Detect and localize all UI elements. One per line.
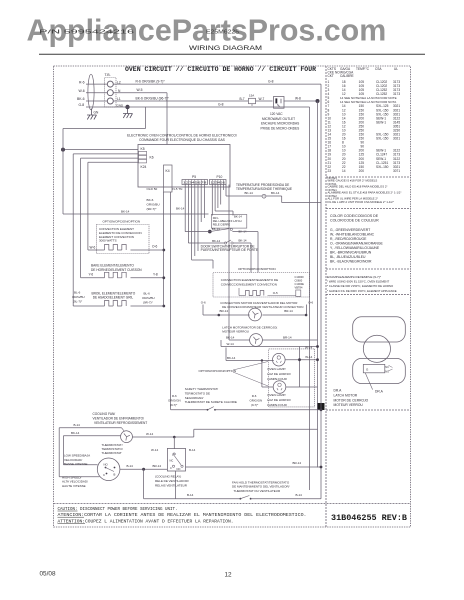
wire relay bottom <box>175 471 177 499</box>
svg-text:W-5: W-5 <box>137 88 143 92</box>
svg-text:BL, -BLUE/AZUL/BLEU: BL, -BLUE/AZUL/BLEU <box>330 255 366 259</box>
svg-text:G-8: G-8 <box>268 80 274 84</box>
svg-text:BK-6 OR/G/BU (96-7)*: BK-6 OR/G/BU (96-7)* <box>136 97 170 101</box>
fan hold thermostat label <box>232 480 290 493</box>
door switch upper feed <box>184 185 186 232</box>
svg-text:BK-14: BK-14 <box>245 191 254 195</box>
svg-text:THERMOSTAT: THERMOSTAT <box>102 451 122 455</box>
svg-text:BR-14: BR-14 <box>284 309 293 313</box>
svg-text:BR-14: BR-14 <box>283 336 292 340</box>
svg-text:K24: K24 <box>141 165 147 169</box>
svg-text:COMMANDE FOUR ELECTRONIQUE DU: COMMANDE FOUR ELECTRONIQUE DU CHASSIS GA… <box>139 138 226 142</box>
wire N down to EOC <box>113 92 167 94</box>
svg-text:W-14: W-14 <box>151 448 158 452</box>
header rule <box>39 53 425 55</box>
svg-text:VBT84: VBT84 <box>295 285 303 289</box>
resistor convection element <box>105 245 127 251</box>
wire lamp2 <box>261 361 263 388</box>
wire BK-14 to door switch <box>63 213 209 215</box>
motor convection fan <box>249 308 262 321</box>
svg-text:MOTOR DE CERROJO: MOTOR DE CERROJO <box>334 398 369 402</box>
bus K4 right down <box>170 192 172 410</box>
microwave outlet <box>274 97 285 109</box>
wire convection motor <box>202 305 204 316</box>
svg-text:T.B.: T.B. <box>105 73 111 77</box>
svg-text:EXAMPLE/EJEMPLO/EXEMPLE (9-7)*: EXAMPLE/EJEMPLO/EXEMPLE (9-7)* <box>327 275 382 279</box>
svg-text:R-6: R-6 <box>252 394 257 398</box>
wire label BL-6 right <box>142 292 155 305</box>
temperature probe circuit <box>226 191 321 202</box>
ground symbol at GND junction <box>123 107 133 118</box>
node lamp1 bus <box>316 358 319 361</box>
bus green x309 <box>309 107 311 490</box>
wire outlet to bus B <box>284 100 318 102</box>
microwave outlet label <box>261 112 300 130</box>
wire bake element <box>81 277 105 279</box>
svg-text:BK-14: BK-14 <box>71 431 80 435</box>
color code block <box>330 214 383 264</box>
svg-text:DR.A: DR.A <box>334 388 343 392</box>
thermostat fan hold switch <box>240 498 242 500</box>
svg-text:ENCHUFE MICROONDAS: ENCHUFE MICROONDAS <box>261 122 299 126</box>
left bus verticals <box>63 129 88 307</box>
node relay bus <box>320 466 323 469</box>
table/notes divider <box>326 176 411 178</box>
wire GND to right bus <box>98 106 310 108</box>
cord lead labels <box>77 80 85 107</box>
svg-text:GN: GN <box>94 111 99 115</box>
svg-text:TEMP.°C: TEMP.°C <box>356 67 370 71</box>
svg-text:OPTION/OPCION/OPTION: OPTION/OPCION/OPTION <box>103 220 141 224</box>
wire junction down to fan hold <box>143 469 145 499</box>
terminal N <box>107 90 113 96</box>
safety thermostat label <box>185 387 237 404</box>
terminal L1 <box>107 98 113 104</box>
svg-text:VENTILATEUR REFROIDISSEMENT: VENTILATEUR REFROIDISSEMENT <box>94 421 147 425</box>
temperature probe label <box>236 183 292 191</box>
svg-text:CALIBRE: CALIBRE <box>340 74 354 78</box>
wire BK-14 to fan <box>63 435 120 437</box>
svg-text:UL: UL <box>394 67 398 71</box>
svg-text:SXL-150: SXL-150 <box>376 137 389 141</box>
svg-text:OPTION/OPCION/OPTION: OPTION/OPCION/OPTION <box>199 369 237 373</box>
latch motor detail label DR.A <box>334 388 369 407</box>
svg-text:MICROWAVE OUTLET: MICROWAVE OUTLET <box>262 117 295 121</box>
node left bus junction <box>61 148 65 152</box>
node convection motor left <box>218 314 221 317</box>
svg-text:N-5 TN: N-5 TN <box>173 187 183 191</box>
svg-text:DE ASADO/ELEMENT GRIL: DE ASADO/ELEMENT GRIL <box>93 296 134 300</box>
svg-text:BK-14: BK-14 <box>227 356 236 360</box>
cord leads <box>86 84 107 107</box>
svg-text:W-8: W-8 <box>295 97 301 101</box>
svg-text:05/08: 05/08 <box>40 571 56 578</box>
svg-text:200: 200 <box>359 169 365 173</box>
wire gauge table rows <box>328 80 401 173</box>
svg-text:CONVECCION/ELEMENT CONVECTION: CONVECCION/ELEMENT CONVECTION <box>221 283 277 287</box>
svg-text:Y-6: Y-6 <box>89 273 94 277</box>
caution strip divider <box>54 503 411 505</box>
node W-14 bus <box>316 345 319 348</box>
wire fuse to outlet <box>256 100 273 102</box>
relay K6 <box>139 155 147 159</box>
registration mark <box>317 403 325 410</box>
thermal fuse convection 2 <box>296 290 301 296</box>
svg-text:LATCH MOTOR: LATCH MOTOR <box>334 393 358 397</box>
relay K24 <box>139 159 147 163</box>
latch motor detail upper housing <box>353 317 406 342</box>
svg-text:BK-14: BK-14 <box>234 214 242 218</box>
svg-text:THERMOSTAT DE SURETE CALORIE: THERMOSTAT DE SURETE CALORIE <box>185 400 237 404</box>
svg-text:OLD 50: OLD 50 <box>147 187 158 191</box>
svg-text:O-6: O-6 <box>308 301 313 305</box>
svg-text:CKT: CKT <box>328 74 334 78</box>
node safety thermostat bus <box>320 408 323 411</box>
wire B-14 to fan <box>59 427 121 429</box>
svg-text:B-14: B-14 <box>189 448 196 452</box>
svg-text:31B046255 REV:B: 31B046255 REV:B <box>331 513 407 523</box>
node thermostat relay junction <box>142 468 145 471</box>
svg-text:VENTILADOR DE ENFRIAMIENTO/: VENTILADOR DE ENFRIAMIENTO/ <box>93 416 145 420</box>
diagram outer frame <box>54 66 411 527</box>
high speed label <box>62 475 88 487</box>
latch-detail bottom divider <box>326 409 411 411</box>
svg-text:O-6: O-6 <box>201 301 206 305</box>
svg-text:RELE CIERRE: RELE CIERRE <box>213 222 231 226</box>
svg-text:W-7: W-7 <box>259 97 265 101</box>
svg-text:G-8: G-8 <box>218 102 224 106</box>
relay K2 cooling box <box>167 448 185 471</box>
svg-text:* GAINE D FIL DE 600V 150°C, E: * GAINE D FIL DE 600V 150°C, ELEMENT APP… <box>327 289 397 293</box>
svg-text:THERMOSTAT DU VENTILATEUR: THERMOSTAT DU VENTILATEUR <box>234 489 281 493</box>
EOC left wires <box>63 150 138 163</box>
svg-text:R, -RED/ROJO/ROUGE: R, -RED/ROJO/ROUGE <box>330 237 367 241</box>
svg-text:C: C <box>103 473 105 477</box>
svg-text:G-8: G-8 <box>79 103 85 107</box>
svg-text:Y-8: Y-8 <box>153 272 158 276</box>
svg-text:ELECTRONIC OVEN CONTROL/CONTRO: ELECTRONIC OVEN CONTROL/CONTROL DE HORNO… <box>127 133 237 137</box>
node broil feed <box>162 305 165 308</box>
svg-text:BK-14: BK-14 <box>212 239 220 243</box>
thermostat cooling switch circle <box>97 458 120 481</box>
svg-text:COLOR/CODE DE COULEUR: COLOR/CODE DE COULEUR <box>330 219 379 223</box>
svg-text:BR-14: BR-14 <box>220 309 229 313</box>
svg-text:W-14: W-14 <box>305 345 312 349</box>
svg-text:C1000E: C1000E <box>295 282 305 286</box>
convection 2 part numbers <box>295 275 305 289</box>
svg-text:W-14: W-14 <box>227 342 234 346</box>
svg-text:OVEN CIRCUIT // CIRCUITO DE HO: OVEN CIRCUIT // CIRCUITO DE HORNO // CIR… <box>125 66 316 73</box>
svg-text:L2: L2 <box>117 80 121 84</box>
color-code/example divider <box>326 268 411 270</box>
notes block <box>328 176 402 204</box>
wire fan hold row <box>144 498 241 500</box>
example/latch-detail divider <box>326 294 411 296</box>
svg-text:120 VAC: 120 VAC <box>270 112 283 116</box>
svg-text:(9R-7)*: (9R-7)* <box>147 207 158 211</box>
wire relay to bus <box>186 466 322 468</box>
wire tap to relay coil <box>173 437 175 449</box>
example block <box>327 275 397 293</box>
wire lamp1 right <box>285 359 317 361</box>
svg-text:B-14: B-14 <box>127 464 134 468</box>
svg-text:OR/G/BU: OR/G/BU <box>147 203 160 207</box>
svg-text:Y, -YELLOW/AMARILLO/JAUNE: Y, -YELLOW/AMARILLO/JAUNE <box>330 246 380 250</box>
svg-text:BK-14: BK-14 <box>176 207 185 211</box>
svg-text:SEGURIDAD/: SEGURIDAD/ <box>185 396 204 400</box>
right column divider <box>325 66 327 527</box>
wire broil element <box>73 305 104 307</box>
convection motor label <box>220 301 303 309</box>
svg-text:B-14: B-14 <box>74 423 81 427</box>
terminal labels L2 N L1 GND <box>117 80 125 107</box>
svg-text:OPTION/OPCION/OPTION: OPTION/OPCION/OPTION <box>238 267 276 271</box>
svg-text:FIL DE L APP-2 UNIT POUR CSA M: FIL DE L APP-2 UNIT POUR CSA MODELE 2° 1… <box>328 200 394 204</box>
svg-text:G, -GREEN/VERDE/VERT: G, -GREEN/VERDE/VERT <box>330 228 370 232</box>
caution text <box>58 506 307 524</box>
svg-text:3071: 3071 <box>393 169 400 173</box>
latch motor detail cam circle <box>363 335 390 362</box>
latch motor detail leader line <box>365 373 372 390</box>
svg-text:BK-6: BK-6 <box>147 198 154 202</box>
thermostat safety switch <box>171 409 208 411</box>
svg-text:COOLING FAN/: COOLING FAN/ <box>93 412 116 416</box>
wire latch motor <box>229 339 250 341</box>
svg-text:15A: 15A <box>249 94 254 98</box>
node convection feed <box>162 249 165 252</box>
svg-text:K5: K5 <box>141 147 145 151</box>
resistor bake element <box>105 272 127 278</box>
node bake bus <box>162 276 165 279</box>
cooling thermostat label <box>102 443 123 455</box>
TB sub-box wire <box>63 107 146 129</box>
svg-text:PRISE DE MICRO-ONDES: PRISE DE MICRO-ONDES <box>261 126 300 130</box>
terminal L2 <box>107 81 113 87</box>
svg-text:BR, -BROWN/CAFE/BRUN: BR, -BROWN/CAFE/BRUN <box>330 251 372 255</box>
svg-text:BK-14: BK-14 <box>121 210 130 214</box>
svg-text:3000 WATTS: 3000 WATTS <box>99 239 117 243</box>
svg-text:LAMPE FOUR: LAMPE FOUR <box>267 403 287 407</box>
svg-text:OR/G/GN: OR/G/GN <box>250 398 263 402</box>
node GND junction <box>125 105 129 109</box>
svg-text:MOTEUR VERROU: MOTEUR VERROU <box>222 330 249 334</box>
svg-text:W-14: W-14 <box>146 432 153 436</box>
svg-text:W-6: W-6 <box>90 245 96 249</box>
power cord ellipse <box>88 74 94 110</box>
svg-text:BK-14: BK-14 <box>271 191 280 195</box>
wire label BK-6 OR/G/BU (9R-7) <box>147 198 160 211</box>
svg-text:B-14: B-14 <box>187 493 194 497</box>
svg-text:(9R-7)*: (9R-7)* <box>143 301 154 305</box>
svg-text:R-6 OR/G/BK (9-7)*: R-6 OR/G/BK (9-7)* <box>136 80 166 84</box>
svg-text:PUERTA/INTERRUPTEUR DE PORTE: PUERTA/INTERRUPTEUR DE PORTE <box>201 248 259 252</box>
relay K4 <box>164 165 173 192</box>
svg-text:P10: P10 <box>217 175 223 179</box>
svg-text:OR/G/BU: OR/G/BU <box>72 295 85 299</box>
node fan relay tap <box>173 436 176 439</box>
resistor convection element 2 <box>246 291 264 296</box>
svg-text:NC: NC <box>170 459 174 463</box>
wire label R-6 right <box>250 394 263 407</box>
svg-text:R-6: R-6 <box>79 80 85 84</box>
pin wire bundle <box>192 185 233 341</box>
svg-text:P5: P5 <box>192 175 196 179</box>
node lamp1 mid <box>298 358 301 361</box>
svg-text:(9-7)*: (9-7)* <box>251 403 259 407</box>
svg-text:LAMPE FOUR: LAMPE FOUR <box>267 377 287 381</box>
broil element label <box>92 291 136 299</box>
svg-text:L1: L1 <box>117 97 121 101</box>
svg-text:DR.A: DR.A <box>375 389 384 393</box>
svg-text:R-6: R-6 <box>172 394 177 398</box>
svg-text:O-5: O-5 <box>273 291 278 295</box>
svg-text:BR-14: BR-14 <box>293 461 302 465</box>
svg-text:W-6: W-6 <box>79 89 85 93</box>
option box oven lamps <box>269 349 315 407</box>
svg-text:BAKE ELEMENT/ELEMENTO: BAKE ELEMENT/ELEMENTO <box>91 263 134 267</box>
door switch label <box>201 244 259 252</box>
svg-text:O-6: O-6 <box>152 245 158 249</box>
svg-text:RELAIS VENTILATEUR: RELAIS VENTILATEUR <box>155 483 188 487</box>
svg-text:C: C <box>170 466 172 470</box>
svg-text:E25M6225: E25M6225 <box>206 30 239 36</box>
svg-text:(9L-7)*: (9L-7)* <box>73 300 83 304</box>
svg-text:SXL-150: SXL-150 <box>376 165 389 169</box>
notes/color-code divider <box>326 208 411 210</box>
node outlet bus junction <box>316 99 320 103</box>
svg-text:W, -WHITE/BLANCO/BLANC: W, -WHITE/BLANCO/BLANC <box>330 233 375 237</box>
svg-text:O, -ORANGE/NARANJA/ORANGE: O, -ORANGE/NARANJA/ORANGE <box>330 242 383 246</box>
svg-text:SAFETY THERMOSTAT/: SAFETY THERMOSTAT/ <box>185 387 219 391</box>
svg-text:ALAMBRE AWG EL STYLE #18 PARA: ALAMBRE AWG EL STYLE #18 PARA MODELES 2°… <box>328 191 402 195</box>
svg-text:SEW-1: SEW-1 <box>376 120 386 124</box>
motor cooling fan <box>121 431 133 443</box>
svg-text:BROIL ELEMENT/ELEMENTO: BROIL ELEMENT/ELEMENTO <box>92 291 136 295</box>
bake element label <box>91 263 142 271</box>
svg-text:NO: NO <box>177 467 181 471</box>
svg-text:K4: K4 <box>166 169 170 173</box>
oven lamp 1 label <box>267 367 291 381</box>
svg-text:(9-7)*: (9-7)* <box>170 403 178 407</box>
svg-text:MOTEUR VERROU: MOTEUR VERROU <box>334 403 364 407</box>
svg-text:* WIRE USING 600V EL 150°C, OV: * WIRE USING 600V EL 150°C, OVEN ELEMENT <box>327 280 390 284</box>
svg-text:B: B <box>114 473 116 477</box>
svg-text:HAUTE VITESSE: HAUTE VITESSE <box>62 484 86 488</box>
svg-text:B-7: B-7 <box>240 97 245 101</box>
latch motor label <box>222 325 277 333</box>
svg-text:LUZ DE HORNO/: LUZ DE HORNO/ <box>267 372 291 376</box>
svg-text:12345678: 12345678 <box>183 181 208 185</box>
wire L2 to right bus <box>113 83 321 85</box>
svg-text:WIRING DIAGRAM: WIRING DIAGRAM <box>189 45 262 52</box>
svg-text:OVEN LAMP/: OVEN LAMP/ <box>267 367 286 371</box>
electronic oven control label <box>127 133 237 141</box>
svg-text:* CLASSE DE 600 V150°C, ELEMEN: * CLASSE DE 600 V150°C, ELEMENTO DE HORN… <box>327 284 394 288</box>
svg-text:OVEN LAMP/: OVEN LAMP/ <box>267 393 286 397</box>
svg-text:BASSE VITESSE: BASSE VITESSE <box>64 462 88 466</box>
resistor broil element <box>105 301 127 307</box>
svg-text:P/N 5995424216: P/N 5995424216 <box>39 30 134 36</box>
svg-text:COLOR CODE/CODIGOS DE: COLOR CODE/CODIGOS DE <box>330 214 379 218</box>
lamp oven 1 <box>273 353 286 366</box>
svg-text:C0600: C0600 <box>295 279 303 283</box>
svg-text:CSA: CSA <box>375 67 382 71</box>
svg-text:23: 23 <box>328 169 332 173</box>
svg-text:BK-14: BK-14 <box>226 336 235 340</box>
wire fan to bus <box>132 436 193 438</box>
svg-text:DE HORNEO/ELEMENT CUISSON: DE HORNEO/ELEMENT CUISSON <box>91 268 142 272</box>
svg-text:12: 12 <box>225 572 233 579</box>
svg-text:3021: 3021 <box>393 137 400 141</box>
motor latch <box>250 334 263 347</box>
door switch box DR.L <box>211 215 247 229</box>
op-amp EOC box <box>138 145 230 188</box>
svg-text:B-14: B-14 <box>296 493 303 497</box>
svg-text:NC: NC <box>385 366 389 369</box>
svg-text:LUZ DE HORNO/: LUZ DE HORNO/ <box>267 398 291 402</box>
cooling fan label <box>93 412 148 425</box>
node convection motor right <box>305 314 308 317</box>
svg-text:ATENCION:CORTAR LA CORIENTE AN: ATENCION:CORTAR LA CORIENTE ANTES DE REA… <box>58 512 307 518</box>
lamp oven 2 <box>273 381 286 394</box>
latch motor detail switch box <box>363 364 385 372</box>
wire label R-6 left <box>168 394 181 407</box>
svg-text:BK-14: BK-14 <box>239 239 247 243</box>
bus neutral x317 <box>317 101 319 468</box>
svg-text:OR/G/BU: OR/G/BU <box>142 296 155 300</box>
wire lamp feed BK-14 <box>226 360 274 362</box>
wire fan feeds down to thermostat <box>58 428 60 477</box>
node lamp feed <box>261 359 263 361</box>
bus line1 x321 <box>320 84 322 499</box>
svg-text:TERMOSTATO DE: TERMOSTATO DE <box>185 391 210 395</box>
svg-text:OR/G/GN: OR/G/GN <box>168 398 181 402</box>
svg-text:W-14: W-14 <box>305 355 312 359</box>
wire W-14 row <box>221 346 318 348</box>
oven lamp 2 label <box>267 393 291 407</box>
svg-text:BL-6: BL-6 <box>74 291 81 295</box>
bus K4 down <box>163 192 165 306</box>
svg-text:123456: 123456 <box>211 181 226 185</box>
wire L1 to fuse <box>113 100 248 102</box>
wire label BL-6 left <box>72 291 85 304</box>
svg-text:BK-6: BK-6 <box>77 97 85 101</box>
svg-text:BL-6: BL-6 <box>144 292 151 296</box>
svg-text:14: 14 <box>342 169 346 173</box>
svg-text:C10000: C10000 <box>295 275 305 279</box>
wire thermostat to relay <box>120 468 167 470</box>
svg-text:NO: NO <box>385 371 389 374</box>
cooling relay label <box>155 475 189 488</box>
svg-text:CONVECTION ELEMENT/ELEMENTO DE: CONVECTION ELEMENT/ELEMENTO DE <box>221 278 278 282</box>
svg-text:BK, -BLACK/NEGRO/NOIR: BK, -BLACK/NEGRO/NOIR <box>330 260 372 264</box>
low speed label <box>64 454 90 466</box>
svg-text:K6: K6 <box>150 156 154 160</box>
wire convection element <box>88 249 105 251</box>
latch motor detail lower housing <box>353 358 406 383</box>
svg-text:BR-14: BR-14 <box>153 464 162 468</box>
